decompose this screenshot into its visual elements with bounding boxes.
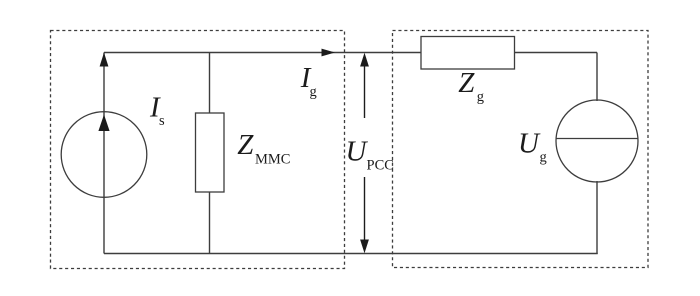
- svg-text:MMC: MMC: [255, 151, 290, 167]
- wire: right vertical below Ug: [596, 181, 598, 254]
- wire: ZMMC top lead: [209, 53, 211, 114]
- wire: top horizontal (source to Zg): [104, 52, 421, 54]
- arrowhead inside current source: [98, 115, 109, 132]
- voltage source U_g circle: [556, 100, 638, 182]
- svg-text:U: U: [346, 135, 369, 167]
- U_PCC measure line upper segment with up arrow: [364, 64, 366, 118]
- svg-text:g: g: [540, 149, 547, 165]
- current source I_s circle: [61, 112, 147, 198]
- U_PCC measure line lower segment with down arrow: [364, 177, 366, 242]
- wire: bottom horizontal: [104, 253, 598, 255]
- voltage source horizontal chord: [556, 138, 638, 140]
- MMC subsystem dashed box: [51, 31, 345, 269]
- svg-text:U: U: [518, 127, 541, 159]
- wire: top horizontal (Zg to right corner): [515, 52, 598, 54]
- impedance Z_MMC box: [196, 113, 225, 192]
- arrow I_g on top wire: [322, 49, 336, 57]
- wire: right vertical above Ug: [596, 53, 598, 102]
- arrowhead at top of source branch: [100, 53, 109, 67]
- svg-text:g: g: [310, 84, 317, 100]
- impedance Z_g box: [421, 37, 515, 70]
- svg-text:Z: Z: [458, 67, 475, 99]
- svg-text:PCC: PCC: [367, 158, 394, 174]
- svg-text:Z: Z: [237, 129, 254, 161]
- svg-text:g: g: [477, 89, 484, 105]
- wire: ZMMC bottom lead: [209, 192, 211, 254]
- wire: current source branch vertical: [103, 53, 105, 254]
- svg-text:s: s: [159, 113, 165, 129]
- grid subsystem dashed box: [393, 31, 649, 268]
